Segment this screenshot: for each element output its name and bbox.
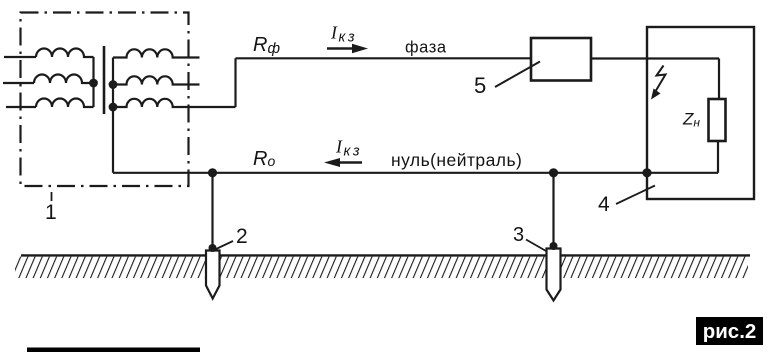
ground electrode 2 (rod) — [206, 244, 220, 299]
wire: primary star point bus — [92, 57, 94, 107]
svg-text:фаза: фаза — [405, 39, 447, 57]
svg-text:1: 1 — [45, 201, 57, 224]
current arrow Iкз on neutral wire (pointing left) — [324, 158, 362, 167]
svg-text:Iкз: Iкз — [330, 23, 357, 46]
svg-text:4: 4 — [598, 193, 610, 216]
transformer secondary winding, phase C coil — [113, 99, 236, 107]
wire: from load Zн down to neutral — [717, 141, 719, 173]
apparatus 5 (protective device box) — [531, 38, 591, 81]
wire: down-lead to ground electrode 2 — [211, 173, 213, 249]
wire: phase conductor Rф (to apparatus 5) — [236, 57, 532, 59]
transformer primary winding, phase A coil — [36, 49, 94, 58]
wire: phase riser from secondary coil C — [234, 58, 236, 107]
leader line for label 4 — [616, 186, 655, 205]
earth surface line — [21, 254, 750, 256]
svg-text:нуль(нейтраль): нуль(нейтраль) — [391, 150, 522, 170]
transformer primary winding, phase B coil — [34, 75, 94, 84]
transformer secondary winding, phase A coil — [113, 49, 200, 57]
wire: neutral conductor Ro (нуль) — [113, 172, 647, 174]
wire: neutral inside enclosure 4 — [647, 172, 718, 174]
wire: primary input phase A — [4, 56, 36, 58]
label нуль(нейтраль) — [391, 150, 522, 170]
junction dot: secondary star phase C — [109, 103, 118, 112]
transformer core — [103, 46, 106, 114]
label Iкз (short-circuit current, neutral) — [335, 137, 362, 160]
label Iкз (short-circuit current, phase) — [330, 23, 357, 46]
label фаза (phase) — [405, 39, 447, 57]
short-circuit fault lightning arrow — [651, 66, 666, 100]
leader line for label 3 — [526, 240, 546, 252]
transformer primary winding, phase C coil — [36, 99, 94, 108]
equipment enclosure 4 (consumer case) — [647, 27, 754, 199]
wire: primary input phase B — [3, 82, 34, 84]
black bar (cropped element, bottom-left) — [27, 348, 200, 352]
leader line for label 2 — [215, 241, 233, 250]
label 5 — [474, 73, 486, 98]
figure caption plate рис.2 — [696, 317, 763, 345]
label Zн — [682, 110, 700, 130]
svg-text:Rо: Rо — [253, 148, 275, 170]
svg-text:2: 2 — [236, 225, 248, 248]
svg-text:Iкз: Iкз — [335, 137, 362, 160]
earth hatching — [15, 257, 748, 279]
ground electrode 3 (rod) — [547, 242, 561, 301]
junction dot: secondary star phase B — [109, 80, 118, 89]
label Rф (phase conductor resistance) — [253, 34, 280, 57]
label 2 — [236, 225, 248, 248]
junction dot: primary star point — [89, 79, 98, 88]
wire: down-lead to ground electrode 3 — [552, 173, 554, 247]
junction dot: neutral / electrode 2 tap — [208, 168, 217, 177]
label 4 — [598, 193, 610, 216]
enclosure box 1: transformer substation (dash-dot border) — [21, 13, 189, 187]
junction dot: neutral at enclosure 4 — [642, 168, 651, 177]
label 1 — [45, 201, 57, 224]
wire: phase conductor from apparatus 5 into enclosure 4 — [591, 57, 719, 59]
svg-text:5: 5 — [474, 73, 486, 98]
svg-text:Rф: Rф — [253, 34, 280, 57]
load impedance Zн — [709, 99, 726, 141]
leader line for label 1 — [51, 192, 53, 201]
wire: secondary star point bus (down to neutral) — [112, 58, 114, 173]
wire: drop from phase to load Zн — [718, 59, 720, 100]
label Ro (neutral conductor resistance) — [253, 148, 275, 170]
current arrow Iкз on phase wire (pointing right) — [327, 44, 368, 53]
label 3 — [513, 224, 524, 246]
wire: primary input phase C — [6, 106, 36, 108]
svg-text:Zн: Zн — [682, 110, 700, 130]
svg-text:рис.2: рис.2 — [703, 320, 757, 343]
junction dot: neutral / electrode 3 tap — [549, 168, 558, 177]
svg-text:3: 3 — [513, 224, 524, 246]
transformer secondary winding, phase B coil — [113, 76, 200, 84]
leader line for label 5 — [495, 62, 540, 88]
